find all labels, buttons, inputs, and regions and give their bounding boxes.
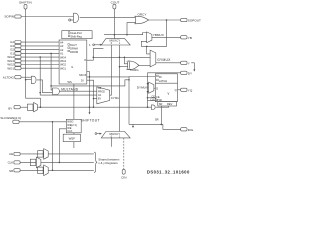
Y output connector <box>181 61 190 65</box>
svg-text:WG3: WG3 <box>60 59 66 63</box>
SOPOUT output <box>181 18 201 22</box>
wire XORG output to GYMUX <box>139 64 150 66</box>
mux on SOPIN line <box>69 13 79 22</box>
svg-text:FF: FF <box>159 75 163 79</box>
YQ output connector <box>181 88 193 92</box>
svg-text:XORG: XORG <box>130 68 140 72</box>
svg-text:WG2: WG2 <box>60 63 66 67</box>
node carry tap to XORG <box>119 66 121 68</box>
wire COUT down to MUXCY top <box>113 9 115 39</box>
WSF box <box>63 133 80 148</box>
SR REV sub-box <box>158 102 177 107</box>
wire DIG line <box>129 124 181 129</box>
LUT attribute box <box>62 31 92 39</box>
wire SOPOUT branch down to GYMUX top input <box>141 20 166 46</box>
svg-text:GYMUX: GYMUX <box>157 58 171 62</box>
wire DI from BY riser <box>87 80 94 107</box>
svg-text:DI: DI <box>81 79 84 83</box>
wire YBMUX lower input elbow <box>141 41 146 46</box>
svg-text:SLICEWE[2:0]: SLICEWE[2:0] <box>0 116 21 120</box>
flip-flop FFY box <box>155 74 177 102</box>
svg-text:A4: A4 <box>60 40 64 44</box>
svg-text:A2: A2 <box>60 48 64 52</box>
svg-text:ORCY: ORCY <box>138 13 147 17</box>
svg-text:G2: G2 <box>98 87 102 90</box>
svg-text:DY: DY <box>188 71 192 75</box>
SR inverter box <box>38 167 44 173</box>
svg-text:BY: BY <box>98 98 102 101</box>
svg-text:DIG: DIG <box>188 128 194 132</box>
WG2 input <box>7 63 59 67</box>
wire WS from LUT down to WSG <box>73 84 75 119</box>
SHIFTIN input <box>19 1 32 9</box>
YB output connector <box>181 36 192 40</box>
buffer on BY line to REV <box>151 105 155 110</box>
mux SR polarity <box>44 165 49 176</box>
svg-text:MUXCY: MUXCY <box>109 39 120 43</box>
G2 input <box>10 48 59 52</box>
constant 1 with arrow into MUXCY select <box>89 43 102 47</box>
SOPIN input <box>4 15 21 19</box>
svg-text:WSF: WSF <box>69 137 76 141</box>
LUT G box <box>59 40 87 84</box>
wire BY line <box>38 106 152 108</box>
node DYMUX lower input <box>147 91 149 93</box>
wire YB output <box>152 36 181 38</box>
and-gate MULTAND <box>53 88 79 95</box>
svg-text:BY: BY <box>8 106 12 110</box>
BY inverter box <box>28 104 34 110</box>
svg-text:YBMUX: YBMUX <box>153 33 164 37</box>
svg-text:DROM: DROM <box>70 50 78 54</box>
wire G1 tap down to MULTAND <box>51 53 52 90</box>
svg-text:SR: SR <box>155 118 159 122</box>
DY output connector <box>181 71 192 75</box>
svg-text:G: G <box>71 65 73 69</box>
wire MC15 line right <box>87 76 130 78</box>
COUT output top <box>111 0 120 9</box>
svg-text:Y: Y <box>167 92 170 96</box>
svg-text:SHIFTOUT: SHIFTOUT <box>81 119 100 123</box>
svg-text:CIN: CIN <box>121 175 126 179</box>
wire LUT MC15 elbow <box>87 72 90 77</box>
svg-text:WG1: WG1 <box>60 66 66 70</box>
svg-text:SR: SR <box>159 102 163 106</box>
wire DY line down to BY line <box>148 73 181 107</box>
svg-text:ALTDIG: ALTDIG <box>3 75 15 79</box>
wire staircase vertical to FF corner and DIG <box>128 77 130 125</box>
wire SHIFTIN down then right to BY net <box>26 9 41 107</box>
CIN connector <box>121 169 126 179</box>
wire lower MUXCY 0 stub <box>110 138 112 147</box>
wire DYMUX output to FF D <box>154 87 155 89</box>
wire lower MUXCY select drop <box>132 124 134 126</box>
mux YBMUX <box>147 32 164 43</box>
G4 input <box>10 40 59 44</box>
wire ORCY lower input elbow from carry bus <box>127 23 136 35</box>
CE input <box>9 152 44 156</box>
svg-text:COUT: COUT <box>111 0 120 4</box>
svg-text:CY0G: CY0G <box>111 96 120 100</box>
wire MUXCY output bus to YBMUX <box>104 33 147 35</box>
wire G2 feed line to DYMUX staircase <box>51 80 129 86</box>
svg-text:DS031_32_101600: DS031_32_101600 <box>147 169 190 174</box>
svg-text:DYMUX: DYMUX <box>137 85 148 89</box>
svg-text:WS: WS <box>68 80 72 84</box>
wire CY0G BY input stub <box>94 98 97 100</box>
mux CY0G <box>97 87 120 104</box>
G1 input <box>10 52 59 56</box>
wire MULTAND output (PROD) to CY0G <box>59 90 96 92</box>
wire DIGMUX output down to MULTAND input <box>37 80 53 93</box>
svg-text:SOPOUT: SOPOUT <box>188 19 201 23</box>
mux DYMUX <box>137 82 154 93</box>
wire D tap down to XORG upper input <box>124 57 127 64</box>
mux CLK polarity <box>36 157 41 168</box>
wire CE rail <box>48 153 94 155</box>
node junction on BY line <box>40 106 42 108</box>
node carry crossing dot <box>119 57 121 59</box>
wire SHIFTOUT drop with arrow <box>81 77 100 123</box>
BY input <box>8 106 27 111</box>
node SHIFTIN to DIGMUX branch <box>25 79 27 81</box>
wire CIN dashed <box>123 138 125 169</box>
wire CY0G output elbow <box>110 94 112 96</box>
WSG box <box>66 119 81 133</box>
node G2 feed branch <box>50 85 52 87</box>
svg-text:YB: YB <box>188 36 192 40</box>
wire FF CE stub <box>147 97 149 99</box>
mux MUXCY upper <box>101 39 130 46</box>
svg-text:CLK: CLK <box>150 98 155 101</box>
svg-text:SOPIN: SOPIN <box>4 15 14 19</box>
mux DIGMUX <box>31 76 36 83</box>
svg-text:D: D <box>84 58 86 62</box>
DIG output connector <box>181 128 194 132</box>
svg-text:CLK: CLK <box>8 161 14 165</box>
mux BYMUX <box>34 103 38 112</box>
svg-text:Shift-Reg: Shift-Reg <box>71 34 83 38</box>
wire WG4 tap down to MULTAND lower / G1 pin <box>40 57 97 95</box>
wire GYMUX top input riser <box>147 46 150 54</box>
wire SLICEWE to WSG <box>19 121 66 123</box>
wire REV buffer output to FF REV <box>156 106 169 107</box>
wire CLK rail <box>41 161 94 163</box>
wire D select elbow up to MUXCY <box>93 49 103 58</box>
mux GYMUX <box>150 50 171 67</box>
svg-text:MUXCY: MUXCY <box>109 132 120 136</box>
wire SR rail <box>48 169 94 171</box>
svg-text:SR: SR <box>9 169 13 173</box>
svg-text:A1: A1 <box>60 52 64 56</box>
svg-text:WG1: WG1 <box>7 66 14 70</box>
node D tap to XORG <box>124 57 126 59</box>
svg-text:CLK: CLK <box>67 129 72 133</box>
xor-gate XORG <box>127 61 139 72</box>
svg-text:WG4: WG4 <box>60 55 66 59</box>
wire SOPIN to mux <box>21 16 73 18</box>
svg-text:REV: REV <box>167 102 173 106</box>
wire Y output <box>156 62 181 64</box>
or-gate ORCY <box>135 13 149 24</box>
wire ORCY output to SOPOUT <box>149 19 181 21</box>
svg-text:A3: A3 <box>60 44 64 48</box>
svg-text:MC15: MC15 <box>79 73 86 77</box>
WG1 input <box>7 66 59 70</box>
svg-text:CE: CE <box>9 152 13 156</box>
wire SR riser up to SLICEWE line <box>52 122 54 171</box>
svg-text:D: D <box>156 86 158 90</box>
wire lower MUXCY select arrow <box>95 133 102 135</box>
node DY to DYMUX upper input <box>147 83 149 85</box>
WG3 input <box>7 59 59 63</box>
svg-text:Q: Q <box>175 88 177 92</box>
wire FF CK stub <box>148 100 156 102</box>
SR input <box>9 169 44 173</box>
G3 input <box>10 44 59 48</box>
mux MUXCY lower <box>101 132 130 139</box>
wire carry tap to XORG lower input <box>120 66 128 68</box>
svg-text:x & y Registers: x & y Registers <box>98 161 118 165</box>
arrow hook from Y to DY <box>191 63 195 72</box>
wire carry chain vertical <box>119 45 121 132</box>
wire mux output to ORCY <box>80 17 136 19</box>
wire FF Q output <box>178 89 181 91</box>
CLK inverter box <box>30 159 36 165</box>
WG4 input <box>7 55 59 59</box>
svg-text:LATCH: LATCH <box>159 79 167 83</box>
svg-text:SHIFTIN: SHIFTIN <box>19 1 32 5</box>
SLICEWE input <box>0 116 21 123</box>
svg-text:Y: Y <box>188 61 190 65</box>
CE inverter box <box>38 151 44 157</box>
svg-text:YQ: YQ <box>188 88 193 92</box>
mux CE polarity <box>44 149 49 160</box>
wire CLK riser up to WSG WE <box>59 129 66 163</box>
wire FF SR stub down to DIG line <box>160 106 162 124</box>
svg-text:1: 1 <box>89 43 91 47</box>
wire LUT D output with jog <box>87 57 150 60</box>
CLK input <box>8 161 37 165</box>
wire MUXCY 0 input from CY0G <box>110 45 112 95</box>
ALTDIG input <box>3 75 32 79</box>
brace shared note <box>94 152 120 172</box>
